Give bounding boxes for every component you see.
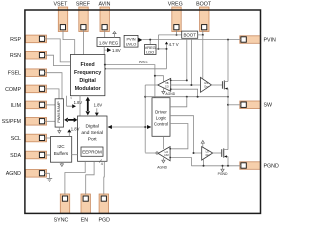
wire VREG rail to BOOT box: [158, 34, 181, 36]
PGND rail: [191, 165, 241, 167]
wire to SYNC: [65, 161, 85, 194]
wire U4 input dot: [193, 152, 195, 154]
wire to PGD: [103, 161, 106, 194]
wire SDA: [45, 154, 51, 156]
svg-text:SCL: SCL: [11, 136, 21, 142]
wire I2C to DSP: [72, 154, 78, 156]
bottom pin EN: [81, 194, 91, 224]
svg-text:FSEL: FSEL: [8, 71, 21, 77]
svg-text:PGND: PGND: [264, 163, 279, 169]
svg-text:BOOT: BOOT: [183, 33, 196, 38]
svg-text:SYNC: SYNC: [54, 218, 69, 224]
ground under I2C: [61, 162, 63, 164]
wire RSN to modulator: [45, 55, 71, 65]
wire VREG down to LDO out: [157, 35, 159, 49]
svg-text:1.8V: 1.8V: [71, 126, 80, 131]
top pin BOOT: [196, 1, 212, 31]
right pin SW: [240, 101, 272, 109]
wire FSEL to PWM RAMP: [45, 73, 63, 99]
svg-text:SDA: SDA: [10, 153, 21, 159]
thick bus arrow modulator to DSP: [86, 97, 91, 116]
svg-text:EEPROM: EEPROM: [82, 150, 102, 155]
op-amp comparator U1 (error comparator): [158, 78, 171, 91]
left pin ILIM: [11, 101, 47, 109]
svg-text:1.8V: 1.8V: [112, 48, 121, 53]
wire comparator output left: [145, 84, 157, 86]
ground under U3: [162, 158, 164, 161]
left pin RSN: [10, 51, 47, 59]
svg-text:VREG: VREG: [168, 1, 183, 7]
left pin SDA: [10, 151, 46, 159]
wire SREF to modulator: [83, 30, 85, 55]
left pin RSP: [10, 35, 46, 43]
wire HS driver to gate: [211, 84, 222, 86]
1.8V REG box: [97, 38, 120, 47]
svg-text:PGD: PGD: [98, 218, 110, 224]
ground under PWM RAMP: [58, 127, 60, 131]
bottom pin SYNC: [54, 194, 70, 224]
transistor Q2 (low side FET): [221, 149, 223, 157]
svg-text:LS: LS: [206, 150, 209, 154]
wire VREG pin stub: [176, 30, 178, 35]
PVIN UVLO output arrow: [138, 38, 142, 42]
svg-text:PVIN: PVIN: [264, 37, 277, 43]
svg-text:VSET: VSET: [53, 1, 68, 7]
svg-text:COMP: COMP: [5, 87, 21, 93]
svg-text:HS: HS: [204, 81, 208, 85]
left pin SCL: [11, 134, 47, 142]
svg-text:Modulator: Modulator: [75, 86, 102, 92]
top pin VSET: [53, 1, 68, 31]
wire modulator bottom to DSP: [79, 96, 81, 116]
thick arrow PWM RAMP to DSP: [64, 118, 77, 123]
svg-text:LDO: LDO: [146, 50, 154, 55]
transistor Q1 (high side FET): [222, 81, 224, 89]
svg-text:RSP: RSP: [10, 37, 21, 43]
wire BOOT box bottom feeds: [187, 38, 192, 85]
wire to EN: [86, 161, 94, 194]
svg-text:Logic: Logic: [156, 116, 167, 121]
comparator outputs column: [144, 85, 146, 153]
svg-text:Buffers: Buffers: [54, 151, 69, 156]
wire U3 output: [145, 152, 156, 154]
right pin PVIN: [240, 36, 276, 44]
low side driver U4: [202, 147, 213, 161]
wire LDO input from PVIN rail: [149, 40, 151, 45]
wire LDO out to 4.7V rail: [156, 48, 167, 50]
top pin AVIN: [99, 1, 111, 31]
svg-text:Frequency: Frequency: [74, 70, 101, 76]
wire SW to pin: [228, 104, 241, 106]
wire AVIN to 1.8V REG: [104, 30, 106, 38]
svg-text:SW: SW: [264, 103, 273, 109]
comparator U3 (current limit): [158, 147, 170, 161]
wire UVLO to PVIN pin: [142, 39, 241, 41]
supply arrow above U4: [202, 143, 204, 147]
wire AGND + ground: [45, 173, 50, 178]
4.7V rail: [105, 44, 167, 69]
wire SW node: [227, 89, 229, 150]
ground under DSP: [99, 159, 101, 162]
svg-text:4.7 V: 4.7 V: [169, 42, 179, 47]
ground symbol PGND: [222, 166, 224, 169]
wire PVIN down to HS FET: [227, 40, 229, 82]
wire BOOT box to BOOT pin: [198, 30, 203, 35]
svg-text:Driver: Driver: [155, 110, 167, 115]
svg-text:Digital: Digital: [79, 78, 96, 84]
wire BOOT down to HS driver: [202, 35, 204, 78]
svg-text:LO: LO: [165, 150, 168, 154]
bottom pin PGD: [98, 194, 110, 224]
1.8V arrow label (reg out): [107, 48, 111, 52]
svg-text:CO: CO: [165, 85, 169, 89]
right pin PGND: [240, 162, 279, 170]
wire modulator out to DLC: [105, 65, 155, 98]
BOOT box: [182, 31, 198, 38]
svg-text:Fixed: Fixed: [81, 62, 95, 68]
ground under comparator U1: [162, 88, 164, 91]
svg-text:Drv: Drv: [204, 85, 209, 89]
PWM RAMP box: [55, 99, 63, 127]
wire SCL: [45, 137, 51, 139]
svg-text:1.8V: 1.8V: [94, 103, 103, 108]
svg-text:I2C: I2C: [57, 144, 65, 149]
EEPROM box: [81, 147, 103, 156]
VREG LDO box: [145, 45, 157, 55]
left pin SS/PFM: [2, 118, 47, 126]
svg-text:1.8V: 1.8V: [74, 100, 83, 105]
driver logic control box: [152, 98, 170, 137]
svg-text:SS/PFM: SS/PFM: [2, 119, 21, 125]
svg-text:VB: VB: [165, 81, 169, 85]
ground AGND bars: [47, 178, 53, 181]
svg-text:BOOT: BOOT: [196, 1, 212, 7]
wire U4 to gate: [213, 152, 222, 154]
wire SS/PFM: [45, 120, 56, 122]
modulator corner glyph: [70, 97, 73, 99]
node PVIN-sense: [227, 39, 229, 41]
comparator U1 input wires: [171, 80, 201, 96]
high side driver U2: [201, 77, 212, 92]
svg-text:SREF: SREF: [76, 1, 91, 7]
wire RSP to modulator: [45, 39, 71, 62]
wire DLC bottom to U3 top: [162, 136, 164, 149]
IC boundary: [25, 10, 261, 213]
1.8V REG up arrow: [114, 34, 116, 38]
wire U4 ground: [203, 160, 205, 166]
1.8V REG output wire: [104, 47, 107, 55]
svg-text:ILIM: ILIM: [11, 103, 21, 109]
svg-text:1.8V REG: 1.8V REG: [99, 40, 119, 45]
left pin AGND: [6, 170, 47, 178]
wire COMP to PWM RAMP: [45, 89, 60, 99]
I2C buffers box: [50, 137, 71, 163]
svg-text:Drv: Drv: [206, 153, 211, 157]
svg-text:UVLO: UVLO: [126, 41, 137, 46]
svg-text:EN: EN: [81, 218, 89, 224]
svg-text:PGND: PGND: [218, 172, 228, 176]
svg-text:RSN: RSN: [10, 53, 21, 59]
left pin COMP: [5, 85, 46, 93]
svg-text:AGND: AGND: [157, 165, 167, 169]
wire Q2 source to PGND rail: [227, 157, 229, 166]
digital serial port box: [78, 116, 108, 161]
top pin SREF: [76, 1, 91, 31]
svg-text:PWM RAMP: PWM RAMP: [57, 101, 61, 123]
U3 input wires: [170, 158, 191, 166]
1.8V arrow near modulator bottom: [67, 96, 73, 106]
1.8V arrow above I2C: [68, 132, 70, 136]
svg-text:LIM: LIM: [164, 153, 168, 157]
bus DSP to DLC double arrow: [108, 126, 151, 128]
svg-text:AVIN: AVIN: [99, 1, 111, 7]
svg-text:PVIN G: PVIN G: [139, 61, 148, 64]
PVIN UVLO box: [124, 35, 138, 47]
svg-text:4: 4: [101, 162, 103, 166]
svg-text:Digital: Digital: [86, 124, 99, 130]
svg-text:and Serial: and Serial: [81, 130, 103, 136]
modulator box: [70, 55, 105, 96]
svg-text:AGND: AGND: [6, 171, 21, 177]
svg-text:Port: Port: [88, 136, 97, 142]
wire ILIM: [45, 104, 56, 106]
DLC right wires: [170, 97, 187, 107]
left pin FSEL: [8, 69, 47, 77]
wire VSET to modulator: [63, 30, 75, 55]
4.7V arrow label: [165, 42, 168, 45]
top pin VREG: [168, 1, 183, 31]
branch to comparator top: [155, 76, 164, 82]
SW sense wire: [145, 96, 228, 98]
svg-text:Control: Control: [154, 122, 168, 127]
svg-text:AGND: AGND: [165, 92, 175, 96]
